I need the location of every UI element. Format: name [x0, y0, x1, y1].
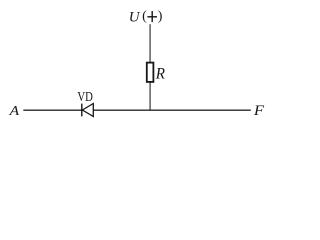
svg-text:VD: VD: [77, 90, 93, 105]
svg-text:A: A: [8, 104, 19, 118]
svg-text:): ): [158, 9, 163, 24]
svg-text:R: R: [155, 65, 165, 82]
svg-text:(: (: [142, 9, 147, 24]
svg-text:U: U: [129, 9, 141, 25]
svg-text:F: F: [253, 103, 265, 118]
